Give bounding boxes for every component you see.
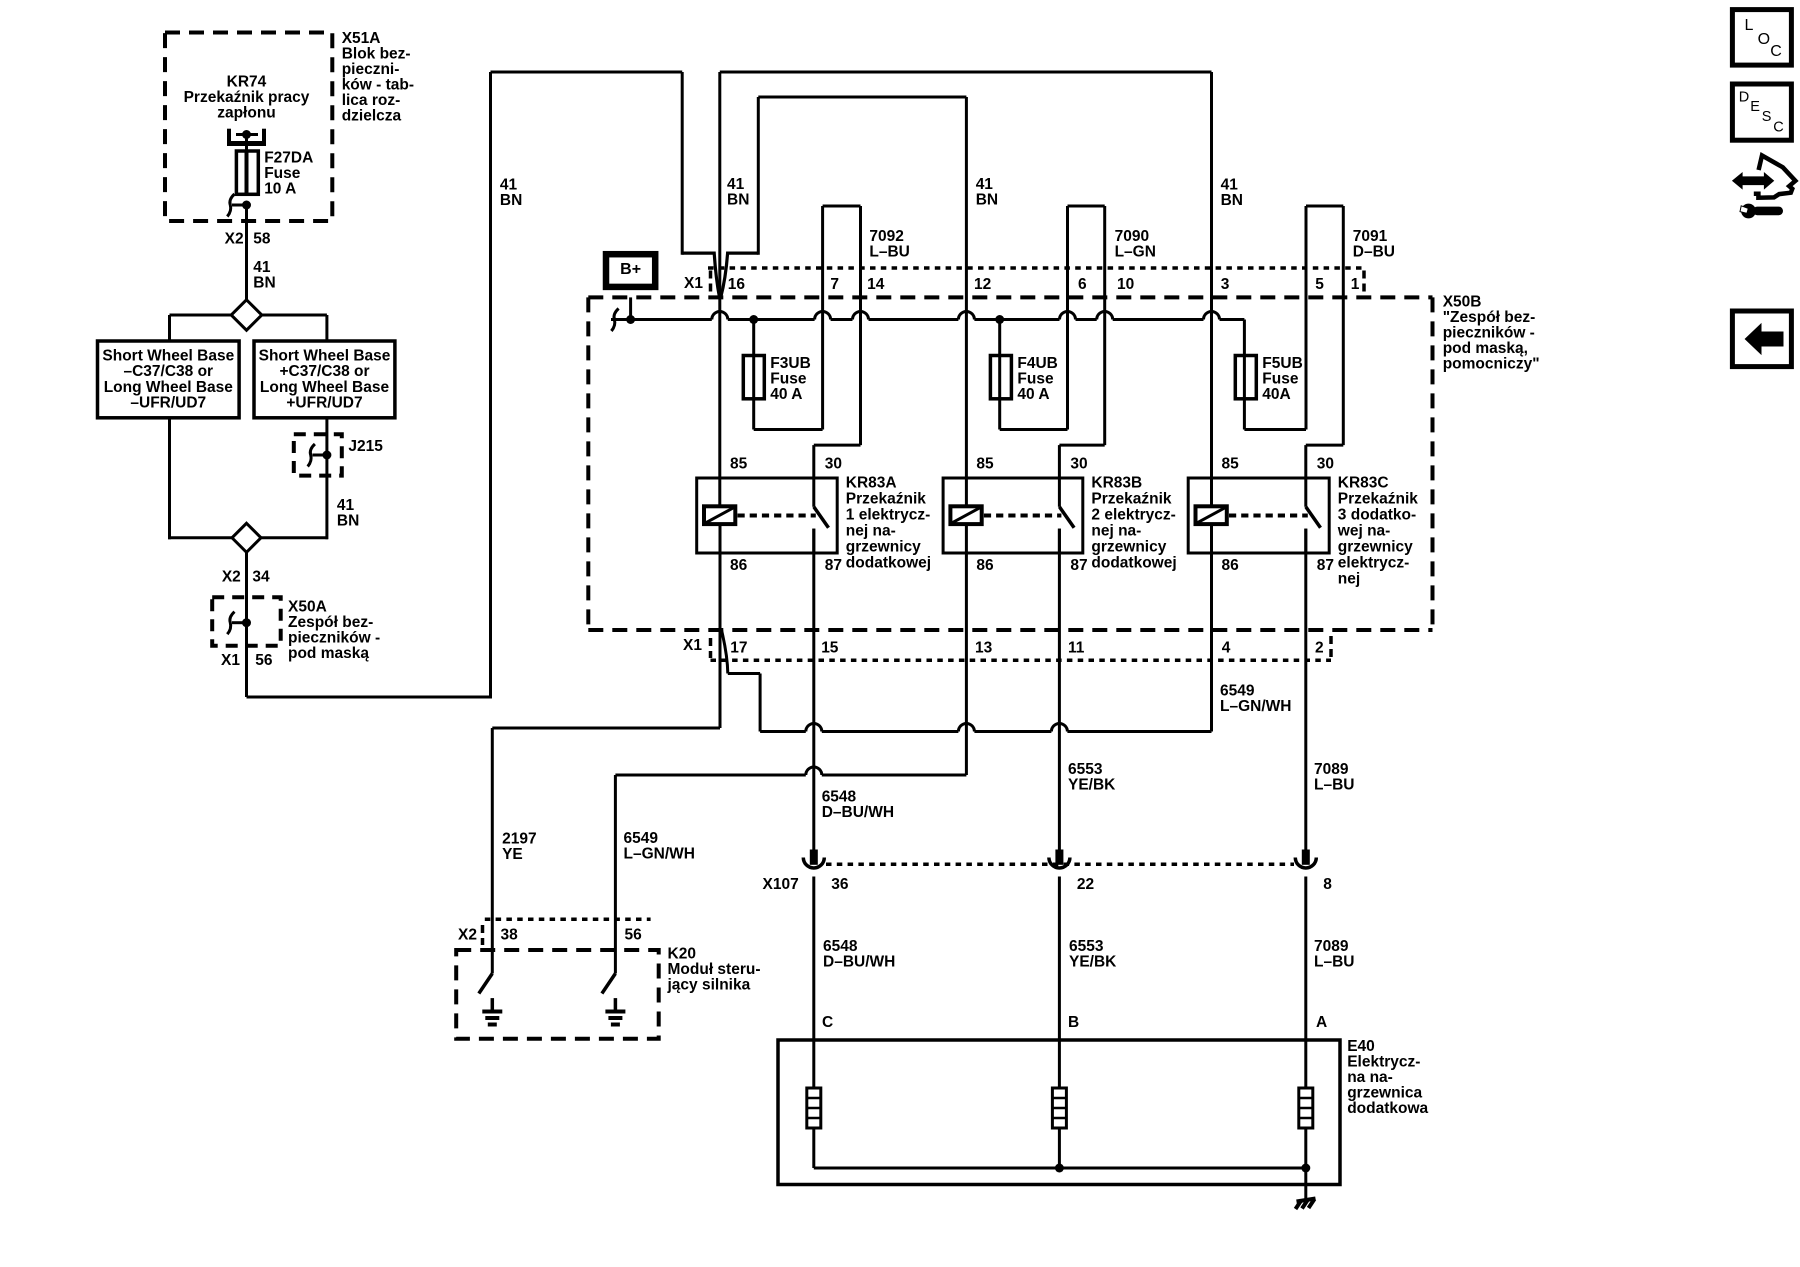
svg-text:1 elektrycz-: 1 elektrycz- [846,506,930,523]
heater element (E40 x=1305.8) [1299,1088,1313,1128]
wire: F3UB bottom lead to pin 822.6 [754,428,823,431]
svg-text:BN: BN [727,191,749,208]
svg-text:X50A: X50A [288,599,327,616]
svg-text:56: 56 [625,927,643,944]
wire: vertical x=966.4 (to X1 pin 12, KR83B 85) [965,97,968,506]
svg-text:41: 41 [500,176,518,193]
relay KR83A box [697,478,838,553]
svg-text:grzewnicy: grzewnicy [846,538,921,555]
connector X1 separator mark (right) [1362,271,1366,294]
wire: E40 internal ground bus [814,1167,1306,1170]
svg-text:40 A: 40 A [770,386,802,403]
svg-text:nej: nej [1338,570,1360,587]
svg-text:2 elektrycz-: 2 elektrycz- [1091,506,1175,523]
svg-text:pieczników -: pieczników - [1443,325,1535,342]
wire: bottom horizontal from X50A to riser [247,696,493,699]
svg-text:41: 41 [337,497,355,514]
wire: X1 pin 4 riser (6549 to KR83C 86) [1210,630,1213,732]
svg-text:elektrycz-: elektrycz- [1338,554,1410,571]
wire: F5UB feed from bus [1243,320,1246,430]
svg-text:"Zespół bez-: "Zespół bez- [1443,309,1536,326]
wire: vertical x=719.8 (B+ feed to KR83A pin 85) [718,72,721,506]
wire: right option box down through J215 to lower diamond [325,418,328,540]
svg-text:dodatkowa: dodatkowa [1347,1100,1428,1117]
svg-text:nej na-: nej na- [846,522,896,539]
fuse block X50B dashed box [588,295,1432,299]
svg-text:F4UB: F4UB [1017,355,1057,372]
svg-text:Short Wheel Base: Short Wheel Base [102,348,234,365]
svg-text:O: O [1758,31,1770,48]
svg-text:X107: X107 [762,876,798,893]
splice diamond (top) [231,300,262,330]
junction dot (E40 A) [1301,1164,1310,1173]
wire: KR83B 86 down through X1-13 [965,524,968,775]
connector X2 separator mark [481,925,485,945]
svg-text:E40: E40 [1347,1038,1375,1055]
wire: top battery feed horizontal (X50A loop to X1-16) [491,71,683,74]
svg-text:C: C [1770,43,1782,60]
svg-text:58: 58 [253,231,271,248]
svg-text:30: 30 [1317,456,1334,473]
svg-text:C: C [1773,119,1783,135]
wire: vertical x=1211.5 (to X1 pin 3, KR83C 85) [1210,72,1213,506]
svg-text:85: 85 [976,456,994,473]
svg-text:F3UB: F3UB [770,355,810,372]
wire: vertical x=682.2 [681,72,684,255]
svg-text:S: S [1762,109,1772,125]
svg-text:7: 7 [830,276,839,293]
svg-text:dodatkowej: dodatkowej [846,554,931,571]
bus: B+ feed inside X50B with hops [611,318,712,321]
svg-text:KR83A: KR83A [846,474,897,491]
svg-text:B+: B+ [620,261,641,278]
wire: pin 822.6 riser [821,206,824,430]
svg-text:+UFR/UD7: +UFR/UD7 [286,395,362,412]
svg-text:YE/BK: YE/BK [1069,954,1117,971]
svg-text:KR83C: KR83C [1338,474,1389,491]
wire: jumper horizontal y=97 to X1 pin 12 [758,96,966,99]
wire: horizontal to K20 pin 56 (6549) with hop [615,774,805,777]
connector X107 terminal pin 8 [1302,850,1310,865]
relay KR83B box [943,478,1083,553]
svg-text:14: 14 [867,276,885,293]
relay KR83B coil [950,506,981,524]
svg-text:15: 15 [821,640,839,657]
wire: step to relay pin 30 [814,444,861,447]
svg-text:X50B: X50B [1443,294,1482,311]
relay KR83C coil-contact dashed link [1229,514,1308,518]
svg-text:11: 11 [1068,640,1085,657]
svg-text:17: 17 [730,640,747,657]
wire: corner + curve into X1 pin 16 (right) [721,253,759,297]
wire: corner + curve into X1 pin 16 (left) [682,253,719,297]
heater element (E40 x=1059.4) [1052,1088,1066,1128]
wire: horizontal to K20 pin 38 riser (2197) [492,727,720,730]
wire: horizontal 6549 to X1 pin 4 with hops [760,730,806,733]
svg-text:34: 34 [252,568,270,585]
svg-text:pod maską,: pod maską, [1443,340,1528,357]
svg-text:38: 38 [501,927,519,944]
wire: diamond to left option box [170,314,232,317]
relay KR83B switch contact [1058,478,1061,507]
svg-text:6549: 6549 [1220,683,1255,700]
svg-text:22: 22 [1077,876,1094,893]
svg-text:grzewnicy: grzewnicy [1338,538,1413,555]
connector row X107 dotted line [826,863,1294,867]
svg-text:5: 5 [1315,276,1324,293]
svg-text:6548: 6548 [822,789,857,806]
svg-text:12: 12 [974,276,991,293]
inline connector J215 dashed box [294,434,342,475]
svg-text:Fuse: Fuse [1262,371,1299,388]
svg-text:X1: X1 [683,637,702,654]
switch to ground inside K20 (x=492.3) [479,974,493,994]
svg-text:grzewnicy: grzewnicy [1091,538,1166,555]
wire: pin 1343.3 drop [1342,206,1345,445]
svg-text:grzewnica: grzewnica [1347,1085,1422,1102]
connector row X1 (top) dotted line [708,266,1363,270]
svg-text:7089: 7089 [1314,761,1349,778]
svg-text:40A: 40A [1262,386,1290,403]
svg-text:41: 41 [1221,177,1239,194]
connector terminal J215 [308,444,315,467]
relay KR83A coil [704,506,735,524]
svg-text:Przekaźnik: Przekaźnik [1091,490,1172,507]
terminal hook at bus left end [611,309,618,332]
svg-text:X1: X1 [684,275,703,292]
svg-text:na na-: na na- [1347,1069,1393,1086]
svg-text:BN: BN [1221,192,1243,209]
icon: vehicle outline with two-way arrow [1754,156,1796,198]
wire: lower diamond to X50A [245,552,248,598]
wire: F27DA top lead [245,135,248,153]
svg-text:Przekaźnik: Przekaźnik [846,490,927,507]
svg-text:40 A: 40 A [1017,386,1049,403]
connector terminal X50A [227,612,234,635]
svg-text:7091: 7091 [1353,228,1388,245]
svg-text:J215: J215 [348,438,383,455]
wire: B+ stub to bus [629,297,632,319]
wire: KR83A 86 down through X1-17 [719,524,722,728]
svg-text:D–BU: D–BU [1353,243,1395,260]
svg-text:L–GN/WH: L–GN/WH [1220,698,1291,715]
svg-text:86: 86 [730,557,748,574]
svg-text:Short Wheel Base: Short Wheel Base [259,348,391,365]
wire: external jumper 7091 top [1306,205,1343,208]
svg-text:10: 10 [1117,276,1134,293]
wire: vertical x=758.3 [757,97,760,255]
svg-text:E: E [1750,99,1760,115]
svg-text:87: 87 [1317,557,1334,574]
wire: KR83A 87 down (6548) to X107 [812,529,815,850]
wire: element to internal bus (x=1305.8) [1304,1128,1307,1168]
fuse F5UB [1235,356,1256,399]
svg-text:Moduł steru-: Moduł steru- [668,961,761,978]
svg-text:X2: X2 [222,568,241,585]
svg-text:pieczników -: pieczników - [288,630,380,647]
svg-text:BN: BN [500,192,522,209]
wire: 6548 below X107 to E40 C [812,877,815,1089]
heater E40 box [778,1040,1340,1185]
wire: 7089 below X107 to E40 A [1304,877,1307,1089]
svg-text:F27DA: F27DA [264,149,313,166]
svg-text:dzielcza: dzielcza [342,108,402,125]
fuse F27DA [236,151,258,194]
svg-text:L: L [1745,17,1754,34]
wire: pin 1067.5 riser [1066,206,1069,430]
relay KR83C coil [1196,506,1227,524]
svg-text:lica roz-: lica roz- [342,92,401,109]
wire: pin 1306 riser [1305,206,1308,430]
svg-text:zapłonu: zapłonu [217,104,276,121]
wire: KR83B 87 down (6553) to X107 [1058,529,1061,850]
wire: X51A output 41 BN down to diamond [245,205,248,301]
svg-text:YE: YE [502,846,523,863]
svg-text:3 dodatko-: 3 dodatko- [1338,506,1416,523]
svg-text:Long Wheel Base: Long Wheel Base [260,379,390,396]
icon box DESC [1732,84,1791,140]
svg-text:86: 86 [976,557,994,574]
connector terminal under F27DA (X51A out) [227,194,234,217]
svg-text:K20: K20 [668,946,696,963]
svg-text:pod maską: pod maską [288,645,369,662]
ground symbol (K20 x=492.3) [491,998,495,1011]
relay KR83A switch contact [812,478,815,507]
wire: 2197 YE drop to K20 pin 38 [491,728,494,974]
svg-text:F5UB: F5UB [1262,355,1302,372]
svg-text:41: 41 [976,176,994,193]
svg-text:10 A: 10 A [264,180,296,197]
svg-text:7090: 7090 [1115,228,1149,245]
svg-text:BN: BN [976,191,998,208]
svg-text:2197: 2197 [502,831,536,848]
option box: Short Wheel Base +C37/C38 [254,341,395,418]
icon box LOC [1732,10,1791,66]
wire: F4UB bottom lead to pin 1067.5 [1000,428,1068,431]
svg-text:41: 41 [727,176,745,193]
svg-text:30: 30 [1070,456,1087,473]
svg-text:30: 30 [825,456,842,473]
connector X1 bottom separator (right) [1329,636,1333,658]
svg-text:Elektrycz-: Elektrycz- [1347,1054,1420,1071]
module K20 dashed box [456,950,659,1039]
wire: external jumper 7090 top [1068,205,1105,208]
junction dot F4UB tap [995,315,1004,324]
svg-text:YE/BK: YE/BK [1068,777,1116,794]
svg-text:6548: 6548 [823,938,858,955]
svg-text:L–BU: L–BU [1314,777,1354,794]
wire: step to relay pin 30 [1059,444,1104,447]
svg-text:L–BU: L–BU [1314,954,1354,971]
svg-text:wej na-: wej na- [1337,522,1391,539]
svg-text:Przekaźnik: Przekaźnik [1338,490,1419,507]
wire: pin 1104.7 drop [1103,206,1106,445]
svg-text:Fuse: Fuse [1017,371,1054,388]
battery terminal B+ box [606,254,655,287]
svg-text:7089: 7089 [1314,938,1349,955]
svg-text:3: 3 [1221,276,1230,293]
connector X1 bottom separator (left) [709,638,713,658]
svg-text:85: 85 [730,456,748,473]
svg-text:X2: X2 [458,927,477,944]
wire: element to internal bus (x=1059.4) [1058,1128,1061,1168]
svg-text:B: B [1068,1014,1079,1031]
svg-text:A: A [1316,1014,1327,1031]
svg-text:L–GN: L–GN [1115,243,1156,260]
wire: X50A to bottom corner [245,597,248,697]
svg-text:X1: X1 [221,652,240,669]
connector X107 terminal pin 22 [1055,850,1063,865]
fuse holder clip (top terminal of F27DA) [227,129,231,144]
svg-text:ków - tab-: ków - tab- [342,77,414,94]
svg-text:Zespół bez-: Zespół bez- [288,614,373,631]
relay KR83C box [1188,478,1329,553]
svg-text:–C37/C38 or: –C37/C38 or [123,363,213,380]
svg-text:D–BU/WH: D–BU/WH [823,954,895,971]
svg-text:Fuse: Fuse [264,165,301,182]
connector row X2 (K20) dotted line [485,917,651,921]
svg-text:6549: 6549 [624,830,659,847]
svg-text:BN: BN [253,275,275,292]
svg-text:87: 87 [1070,557,1087,574]
svg-text:–UFR/UD7: –UFR/UD7 [130,395,206,412]
relay KR83C switch contact [1304,478,1307,507]
svg-text:56: 56 [255,652,273,669]
svg-text:87: 87 [825,557,842,574]
svg-text:L–GN/WH: L–GN/WH [624,845,695,862]
wire: external jumper 7092 top [823,205,861,208]
svg-text:85: 85 [1222,456,1240,473]
heater element (E40 x=813.8) [807,1088,821,1128]
fuse F4UB [990,356,1011,399]
svg-text:Fuse: Fuse [770,371,807,388]
svg-text:D–BU/WH: D–BU/WH [822,804,894,821]
relay KR83A coil-contact dashed link [738,514,816,518]
svg-text:41: 41 [253,259,271,276]
icon box back-arrow [1732,311,1791,367]
svg-text:2: 2 [1315,640,1324,657]
wire: pin 17 second-crimp diagonal [722,630,728,674]
wire: element to internal bus (x=813.8) [812,1128,815,1168]
svg-text:nej na-: nej na- [1091,522,1141,539]
switch to ground inside K20 (x=615.4) [602,974,616,994]
connector row X1 (bottom) dotted line [711,659,1332,663]
wire: step to relay pin 30 [1306,444,1344,447]
svg-text:KR74: KR74 [227,73,267,90]
svg-text:dodatkowej: dodatkowej [1091,554,1176,571]
wire: left option box to lower diamond [168,418,171,540]
splice diamond (lower) [232,523,261,552]
svg-text:4: 4 [1222,640,1231,657]
svg-text:+C37/C38 or: +C37/C38 or [279,363,369,380]
svg-text:Przekaźnik pracy: Przekaźnik pracy [184,89,310,106]
wire: E40 to chassis ground [1304,1168,1307,1199]
svg-text:6553: 6553 [1068,761,1103,778]
svg-text:X2: X2 [225,231,244,248]
svg-text:X51A: X51A [342,30,381,47]
svg-text:BN: BN [337,513,359,530]
wire: pin 860.5 drop [859,206,862,445]
junction dot F3UB tap [749,315,758,324]
wire: F4UB feed from bus [998,320,1001,430]
svg-text:13: 13 [975,640,993,657]
svg-text:Blok bez-: Blok bez- [342,46,411,63]
svg-text:1: 1 [1351,276,1360,293]
relay KR83B coil-contact dashed link [984,514,1062,518]
wire: left vertical riser x=490.5 [489,72,492,697]
wire: F5UB bottom lead to pin 1306 [1244,428,1306,431]
svg-text:7092: 7092 [869,228,903,245]
connector X1 separator mark (left) [709,271,713,294]
svg-text:36: 36 [831,876,849,893]
wire: 6553 below X107 to E40 B [1058,877,1061,1089]
ground symbol (K20 x=615.4) [614,998,618,1011]
svg-text:86: 86 [1222,557,1240,574]
svg-text:L–BU: L–BU [869,243,909,260]
fuse block X51A dashed box [165,33,332,222]
wire: 6549 drop to K20 pin 56 [614,775,617,974]
wire: jog step to 6549 riser [728,672,760,675]
icon: wrench [1741,204,1756,219]
svg-text:jący silnika: jący silnika [667,977,751,994]
svg-text:8: 8 [1323,876,1332,893]
svg-text:6: 6 [1078,276,1087,293]
svg-text:KR83B: KR83B [1091,474,1142,491]
wire: KR83C 87 down (7089) to X107 [1304,529,1307,850]
option box: Short Wheel Base -C37/C38 [98,341,240,418]
svg-text:C: C [822,1014,833,1031]
connector X107 terminal pin 36 [810,850,818,865]
svg-text:6553: 6553 [1069,938,1104,955]
svg-text:16: 16 [728,276,746,293]
connector X50A dashed box [212,597,281,646]
svg-text:D: D [1739,90,1749,106]
wire: F3UB feed from bus [752,320,755,430]
junction dot (E40 B) [1055,1164,1064,1173]
wire: diamond to right option box [262,314,327,317]
fuse F3UB [743,356,764,399]
wire: top jumper horizontal X1-16 to pin3 riser [720,71,1212,74]
chassis ground symbol [1297,1199,1316,1202]
svg-text:pomocniczy": pomocniczy" [1443,356,1540,373]
svg-text:pieczni-: pieczni- [342,61,400,78]
svg-text:Long Wheel Base: Long Wheel Base [104,379,234,396]
